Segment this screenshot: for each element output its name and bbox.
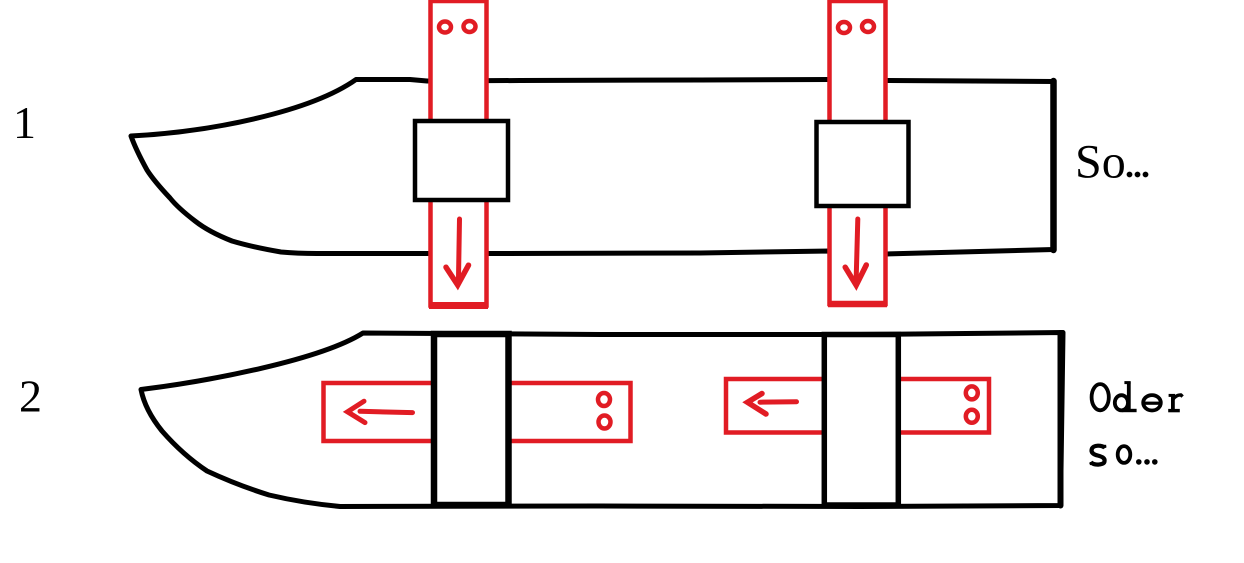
strap A (vertical, fig 1 left) (429, 1, 488, 306)
glyph O (1092, 384, 1109, 410)
glyph r (1171, 396, 1175, 411)
ellipsis of so... (1136, 459, 1158, 465)
svg-text:1: 1 (13, 97, 36, 148)
sheath 1 outline (131, 80, 1054, 255)
glyph d (1115, 395, 1128, 410)
strap B (vertical, fig 1 right) (828, 1, 887, 304)
arrow B (red, down) (845, 219, 866, 285)
svg-text:So: So (1075, 136, 1126, 189)
strap C hole 1 (598, 393, 610, 406)
glyph e (1143, 395, 1161, 410)
svg-text:2: 2 (19, 371, 42, 422)
sheath 1 right edge (heavier) (1050, 81, 1057, 250)
strap D (horizontal, fig 2 right) (726, 379, 989, 433)
buckle B (black square) (817, 122, 909, 206)
glyph o (1118, 446, 1131, 463)
arrow C (red, left) (348, 401, 413, 422)
band C (black loop over strap) (434, 334, 509, 505)
strap B hole 2 (862, 21, 874, 32)
glyph s (1091, 446, 1105, 465)
buckle A (black square) (415, 121, 508, 200)
arrow D (red, left) (748, 394, 797, 415)
sheath 2 outline (141, 333, 1063, 507)
strap D hole 2 (966, 410, 978, 423)
strap A hole 1 (439, 22, 451, 33)
strap B hole 1 (838, 22, 850, 33)
strap D hole 1 (966, 386, 978, 399)
strap C hole 2 (599, 416, 611, 429)
strap A hole 2 (464, 21, 476, 32)
arrow A (red, down) (446, 219, 469, 285)
sheath 2 right edge (heavier) (1058, 333, 1064, 506)
strap C (horizontal, fig 2 left) (324, 383, 631, 441)
caption Oder so... (typewriter-style drawn glyphs) (1090, 382, 1183, 465)
band D (black loop over strap) (824, 335, 898, 506)
